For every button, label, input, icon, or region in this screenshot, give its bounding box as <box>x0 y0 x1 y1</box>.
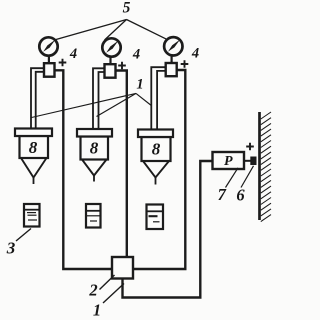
svg-text:1: 1 <box>93 301 101 320</box>
svg-text:4: 4 <box>69 46 77 62</box>
svg-text:8: 8 <box>152 140 161 159</box>
svg-text:8: 8 <box>29 138 38 157</box>
svg-text:2: 2 <box>88 281 97 300</box>
svg-text:5: 5 <box>123 0 131 17</box>
svg-text:4: 4 <box>191 46 199 62</box>
svg-text:P: P <box>224 154 233 169</box>
svg-text:3: 3 <box>6 239 16 258</box>
svg-text:7: 7 <box>218 185 227 204</box>
svg-text:8: 8 <box>90 139 99 158</box>
svg-text:6: 6 <box>236 186 245 205</box>
svg-text:4: 4 <box>132 47 140 63</box>
svg-text:1: 1 <box>136 77 143 93</box>
